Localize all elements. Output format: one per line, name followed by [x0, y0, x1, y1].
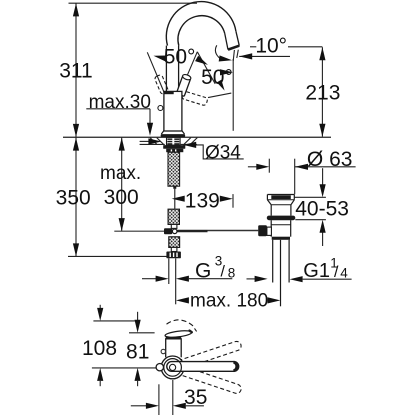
svg-text:311: 311 — [59, 60, 92, 83]
svg-text:G1: G1 — [303, 260, 330, 282]
svg-text:40-53: 40-53 — [295, 198, 349, 221]
svg-text:/: / — [221, 264, 226, 281]
svg-text:8: 8 — [228, 266, 236, 281]
svg-text:35: 35 — [184, 386, 207, 409]
svg-text:108: 108 — [82, 337, 117, 360]
svg-text:350: 350 — [56, 187, 91, 210]
svg-text:max.: max. — [100, 163, 141, 184]
svg-text:300: 300 — [104, 186, 139, 209]
svg-text:G: G — [195, 259, 211, 282]
svg-text:10°: 10° — [255, 35, 287, 58]
svg-text:50°: 50° — [164, 45, 196, 68]
svg-text:max. 180: max. 180 — [190, 291, 268, 312]
svg-text:213: 213 — [305, 82, 340, 105]
svg-text:50°: 50° — [201, 66, 233, 89]
svg-text:81: 81 — [126, 340, 149, 363]
svg-text:4: 4 — [340, 266, 348, 281]
svg-text:max.30: max.30 — [89, 92, 151, 113]
svg-text:139: 139 — [185, 190, 220, 213]
svg-text:/: / — [334, 264, 339, 281]
svg-text:Ø34: Ø34 — [205, 143, 241, 164]
svg-text:Ø 63: Ø 63 — [307, 148, 353, 171]
